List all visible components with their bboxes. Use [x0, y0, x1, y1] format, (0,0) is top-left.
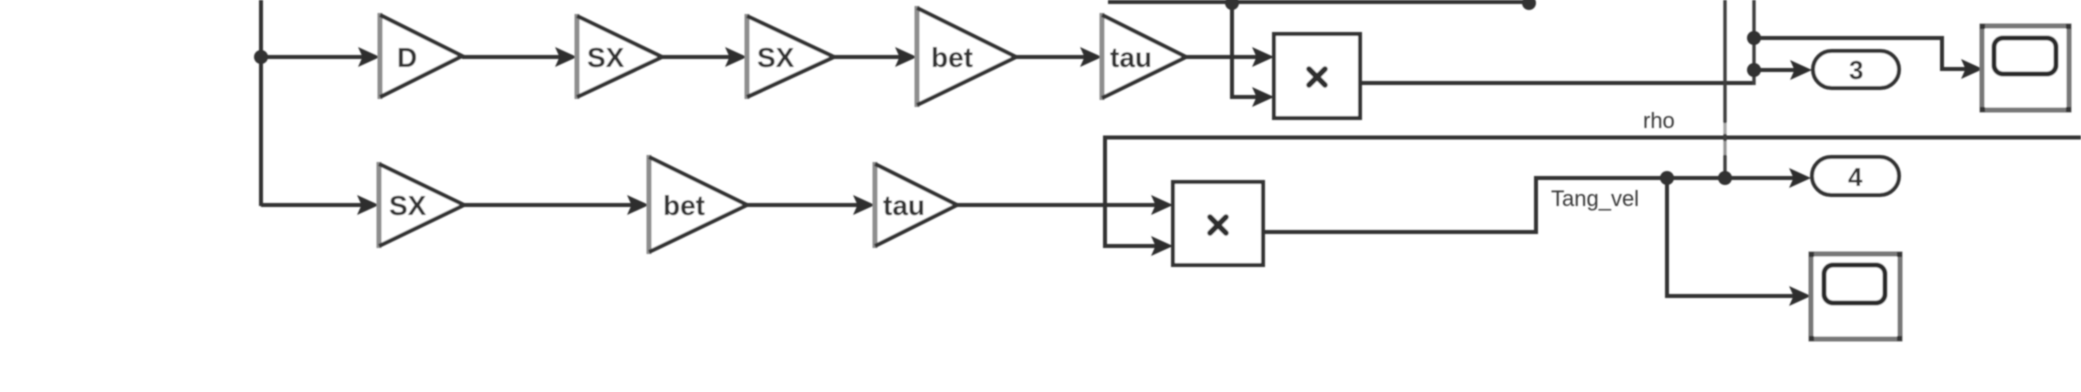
product P2 [1173, 182, 1263, 265]
wire: trunk to gain SX3 [261, 195, 379, 215]
wire: cropped top feed [1108, 0, 1529, 4]
junction at top feed right end [1522, 0, 1536, 10]
svg-text:SX: SX [389, 190, 427, 221]
junction riser/scope1 [1747, 31, 1761, 45]
wire: rho line [1105, 138, 2081, 257]
svg-text:rho: rho [1643, 108, 1675, 133]
wire: tau2 to product P2 input 1 [957, 195, 1173, 215]
svg-text:bet: bet [931, 42, 973, 73]
wire: top feed down to product P1 input 2 [1232, 2, 1274, 107]
svg-text:4: 4 [1848, 162, 1863, 192]
wire: Tang_vel riser to top [1721, 0, 1729, 178]
wire: tau1 to product P1 input 1 [1186, 47, 1274, 67]
scope SC1 [1980, 24, 2071, 112]
wire: Tang_vel down to scope SC2 [1667, 178, 1811, 306]
wire: bet2 to tau2 [747, 195, 875, 215]
net label Tang_vel [1551, 186, 1639, 211]
svg-text:Tang_vel: Tang_vel [1551, 186, 1639, 211]
junction Tang_vel/riser [1718, 171, 1732, 185]
svg-text:D: D [397, 42, 417, 73]
wire: SX2 to bet1 [834, 47, 917, 67]
gain SX1 [577, 14, 662, 99]
wire: bet1 to tau1 [1016, 47, 1102, 67]
junction at trunk/top-branch [254, 50, 268, 64]
outport 3 [1813, 51, 1899, 88]
gain tau1 [1102, 13, 1186, 100]
net label rho [1643, 108, 1675, 133]
gain SX3 [379, 162, 464, 248]
junction riser/outport3 [1747, 63, 1761, 77]
gain tau2 [875, 162, 957, 248]
svg-text:SX: SX [587, 42, 625, 73]
svg-text:tau: tau [1110, 42, 1152, 73]
wire: trunk to gain D [261, 47, 380, 67]
gain D [380, 13, 462, 99]
svg-text:SX: SX [757, 42, 795, 73]
scope SC2 [1809, 252, 1902, 341]
svg-text:tau: tau [883, 190, 925, 221]
wire: P2 output Tang_vel [1263, 168, 1811, 232]
wire: riser to scope SC1 [1754, 38, 1983, 79]
gain SX2 [747, 14, 834, 99]
product P1 [1274, 34, 1360, 118]
svg-text:bet: bet [663, 190, 705, 221]
wire: left input trunk vertical [259, 0, 263, 206]
junction Tang_vel/scope branch [1660, 171, 1674, 185]
outport 4 [1812, 157, 1899, 195]
svg-text:3: 3 [1849, 55, 1863, 85]
wire: SX3 to bet2 [464, 195, 649, 215]
gain bet1 [917, 6, 1016, 107]
junction on top feed [1225, 0, 1239, 10]
wire: SX1 to SX2 [662, 47, 747, 67]
gain bet2 [649, 155, 747, 254]
wire: riser to outport 3 [1754, 60, 1812, 80]
wire: P1 output riser [1360, 0, 1754, 85]
wire: D to SX1 [462, 47, 577, 67]
